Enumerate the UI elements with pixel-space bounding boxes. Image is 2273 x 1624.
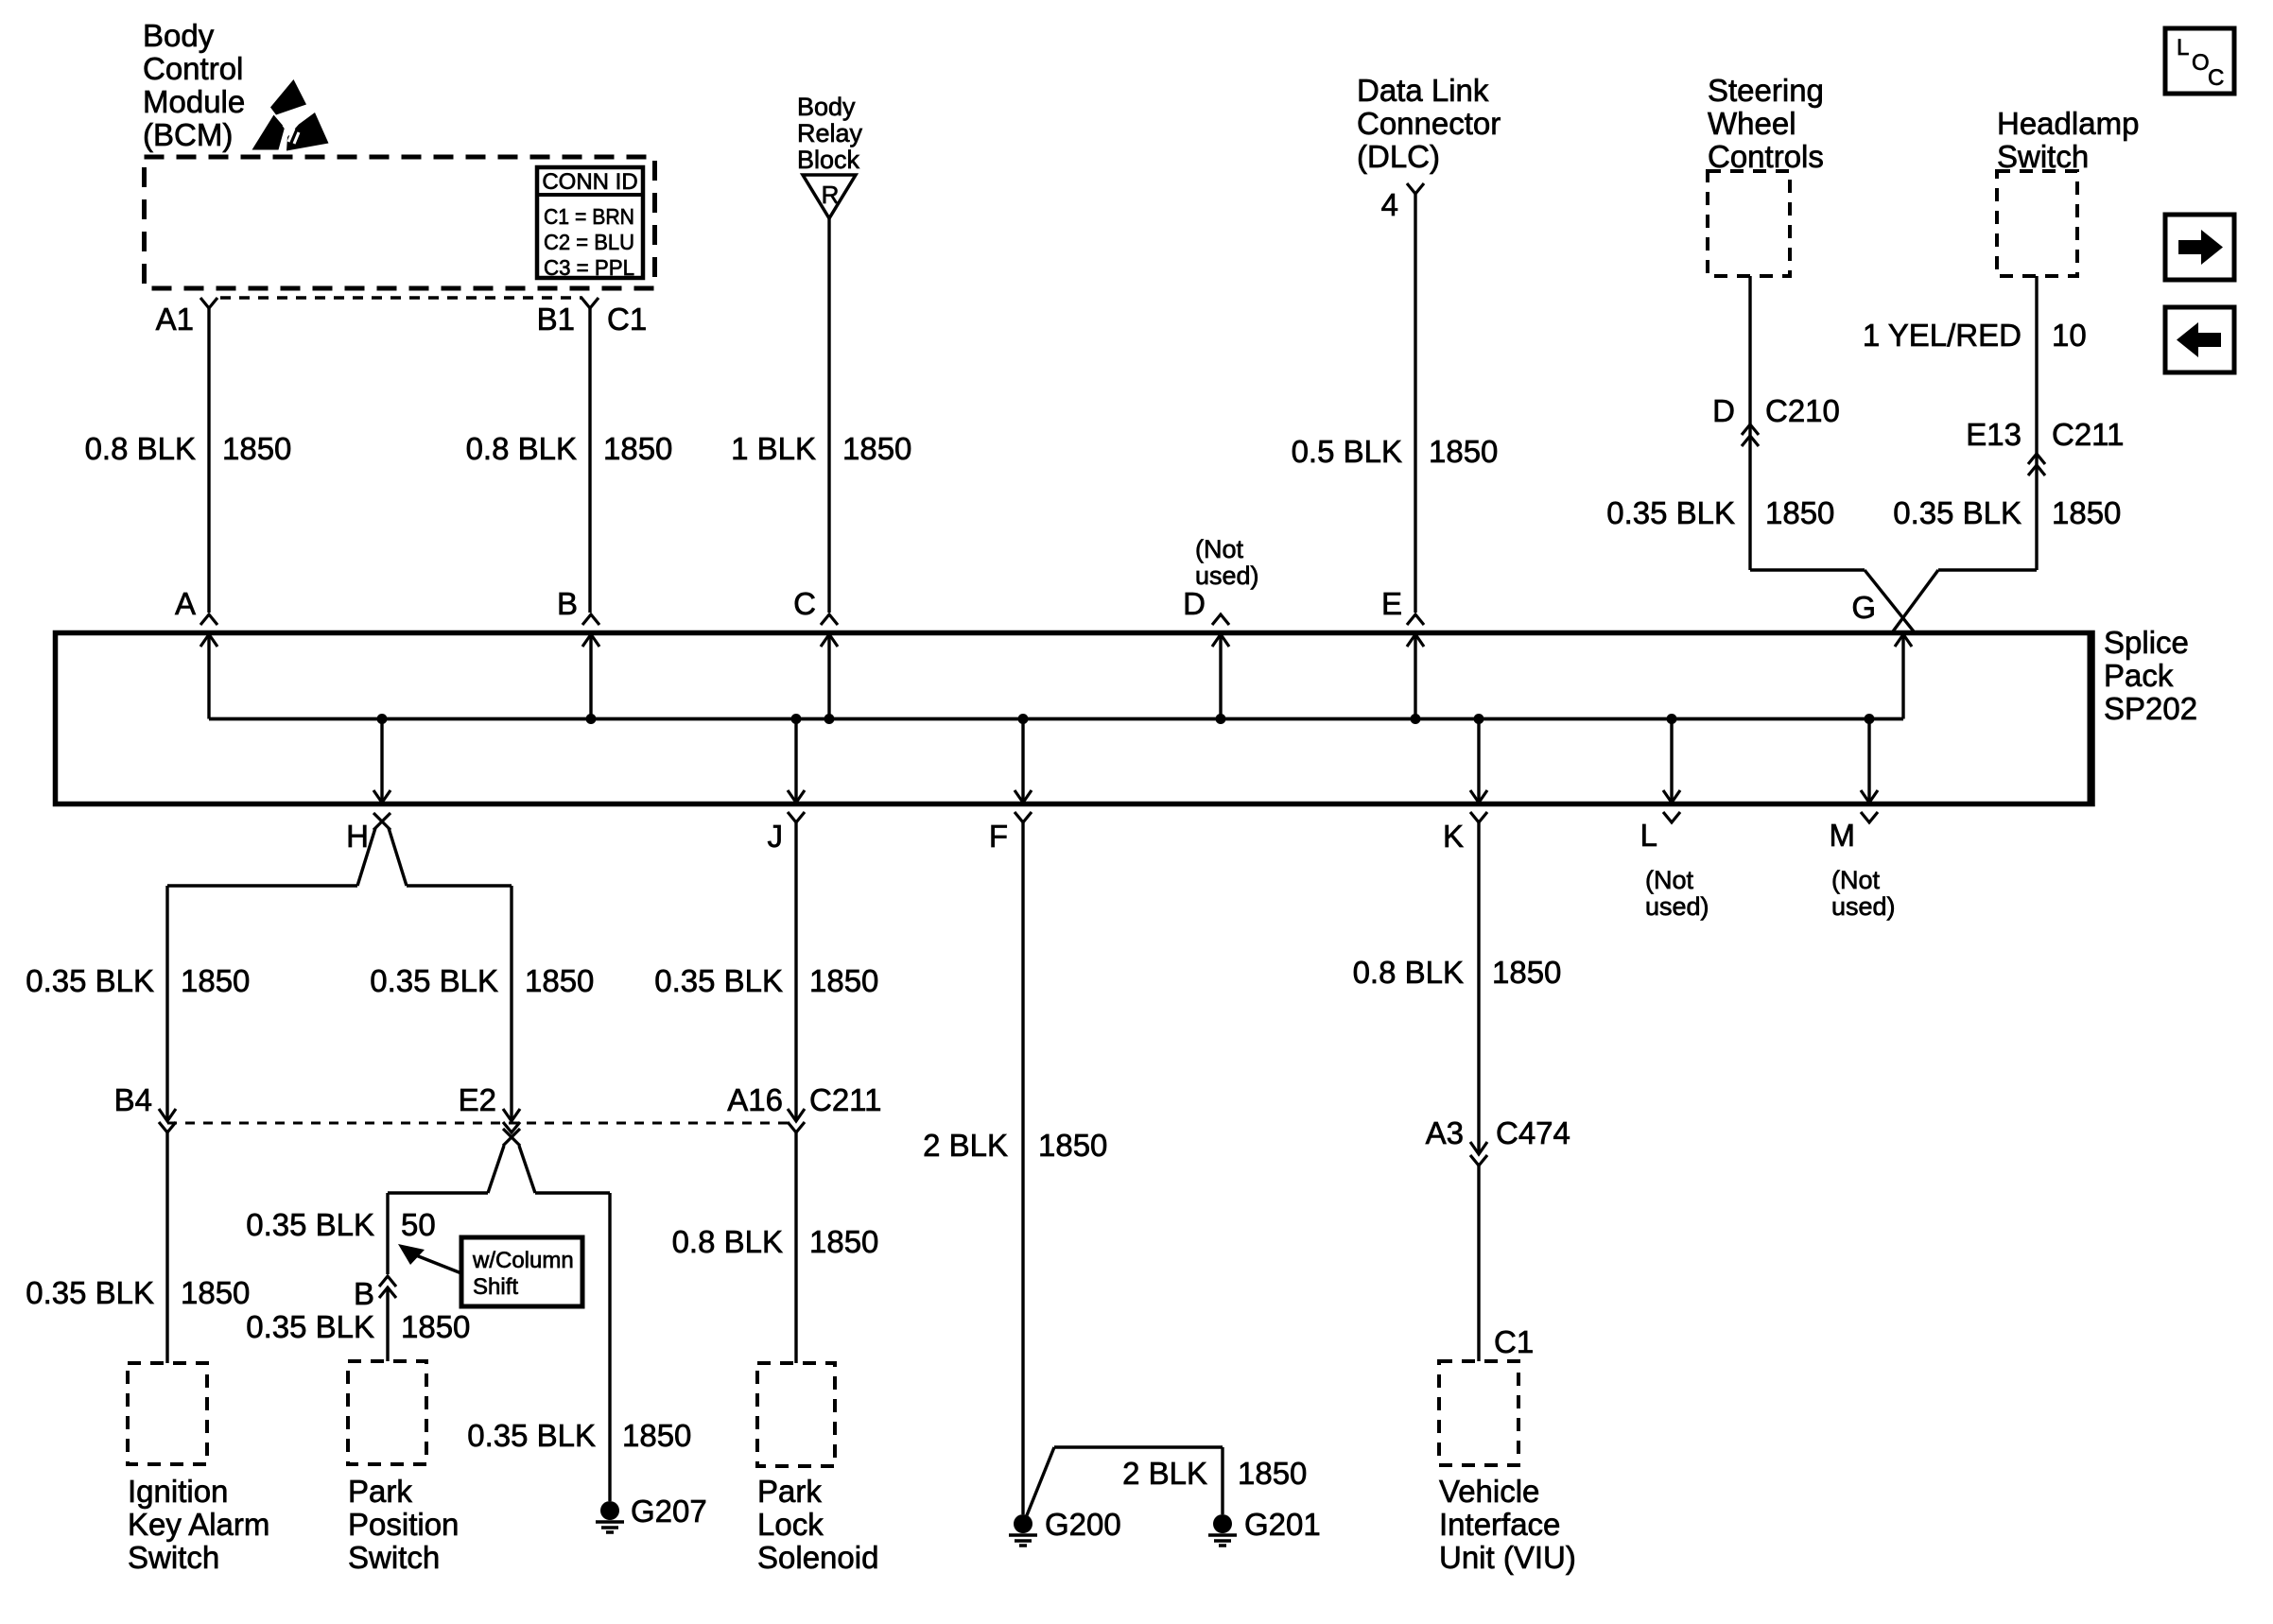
svg-text:L: L — [2177, 35, 2189, 60]
svg-text:Switch: Switch — [128, 1540, 219, 1575]
splice terminal C — [793, 586, 838, 724]
component box Ignition Key Alarm Switch (dashed) — [128, 1363, 207, 1464]
svg-text:A3: A3 — [1426, 1115, 1464, 1150]
wire HLS corner to G crossover — [1893, 570, 2037, 631]
svg-text:0.5 BLK: 0.5 BLK — [1292, 434, 1402, 469]
wire to Vehicle Interface Unit C1 — [1479, 1166, 1534, 1361]
callout arrow to wire — [398, 1244, 461, 1273]
wire E2 fork crossover — [388, 1129, 610, 1193]
component label Park Lock Solenoid — [757, 1474, 878, 1575]
svg-text:10: 10 — [2052, 318, 2087, 353]
svg-text:0.8 BLK: 0.8 BLK — [1353, 955, 1464, 990]
wire G200 to G201 jumper, 2 BLK 1850 — [1027, 1447, 1307, 1515]
connector pin A1 of BCM — [156, 298, 217, 337]
svg-text:2 BLK: 2 BLK — [923, 1128, 1008, 1163]
svg-text:Park: Park — [348, 1474, 412, 1509]
svg-text:Block: Block — [797, 146, 860, 174]
splice terminal J — [768, 714, 806, 854]
ground G200 — [1009, 1507, 1121, 1546]
component box Vehicle Interface Unit (dashed) — [1439, 1361, 1518, 1465]
splice terminal B — [557, 586, 599, 724]
svg-text:0.35 BLK: 0.35 BLK — [467, 1418, 596, 1453]
splice terminal G crossover — [1851, 590, 1912, 719]
page nav arrow left box — [2165, 307, 2234, 372]
svg-text:Splice: Splice — [2104, 625, 2189, 660]
splice terminal F — [989, 714, 1032, 854]
svg-text:C2 = BLU: C2 = BLU — [544, 230, 634, 254]
svg-text:1850: 1850 — [1238, 1456, 1307, 1491]
svg-text:C211: C211 — [2052, 417, 2124, 452]
connector A16 C211 inline — [727, 1082, 881, 1132]
svg-text:Interface: Interface — [1439, 1507, 1560, 1542]
svg-text:1850: 1850 — [1492, 955, 1561, 990]
svg-text:E2: E2 — [459, 1082, 496, 1117]
svg-text:G200: G200 — [1045, 1507, 1121, 1542]
svg-text:A16: A16 — [727, 1082, 783, 1117]
svg-text:used): used) — [1195, 561, 1259, 590]
svg-text:0.35 BLK: 0.35 BLK — [1893, 495, 2021, 530]
svg-text:Module: Module — [143, 84, 245, 119]
CONN ID table — [537, 167, 643, 280]
svg-text:K: K — [1443, 819, 1464, 854]
svg-text:1850: 1850 — [401, 1309, 470, 1344]
svg-text:50: 50 — [401, 1207, 436, 1242]
svg-text:B: B — [557, 586, 578, 621]
splice terminal D (Not used) — [1183, 535, 1258, 724]
svg-text:C211: C211 — [809, 1082, 881, 1117]
wire DLC-4 to splice E, 0.5 BLK 1850 — [1292, 194, 1499, 613]
wire R to splice C, 1 BLK 1850 — [731, 218, 911, 613]
svg-text:1850: 1850 — [622, 1418, 691, 1453]
svg-text:L: L — [1640, 818, 1657, 853]
svg-text:CONN ID: CONN ID — [542, 169, 637, 195]
svg-text:Connector: Connector — [1357, 106, 1501, 141]
connector A3 C474 inline — [1426, 1115, 1570, 1166]
wire E2 right branch to G207, 0.35 BLK 1850 — [467, 1193, 691, 1501]
svg-text:(Not: (Not — [1831, 866, 1881, 894]
svg-text:G207: G207 — [631, 1494, 707, 1529]
svg-text:1 YEL/RED: 1 YEL/RED — [1863, 318, 2021, 353]
wire B4 to Ignition Key Alarm Switch, 0.35 BLK 1850 — [26, 1132, 250, 1363]
splice terminal K — [1443, 714, 1487, 854]
wire H left branch 0.35 BLK 1850 — [26, 886, 250, 1119]
connector D C210 inline — [1712, 393, 1840, 446]
splice pack SP202 box — [56, 625, 2198, 804]
svg-text:1 BLK: 1 BLK — [731, 431, 816, 466]
svg-text:0.35 BLK: 0.35 BLK — [654, 963, 783, 998]
component label Data Link Connector (DLC) — [1357, 73, 1501, 174]
connector E13 C211 inline — [1893, 417, 2124, 530]
svg-text:B4: B4 — [114, 1082, 152, 1117]
svg-text:C: C — [793, 586, 816, 621]
component box Park Lock Solenoid (dashed) — [757, 1363, 835, 1466]
component label Body Relay Block — [797, 93, 863, 174]
svg-text:C474: C474 — [1496, 1115, 1570, 1150]
wire HLS 1 YEL/RED 10 — [1863, 276, 2087, 570]
svg-text:1850: 1850 — [525, 963, 594, 998]
svg-text:Ignition: Ignition — [128, 1474, 228, 1509]
svg-text:O: O — [2192, 50, 2210, 76]
svg-text:Body: Body — [143, 18, 215, 53]
svg-text:(DLC): (DLC) — [1357, 139, 1440, 174]
splice pack internal bus wire — [209, 717, 1903, 721]
svg-text:4: 4 — [1381, 187, 1398, 222]
wire to Park Position Switch upper, 0.35 BLK 50 — [246, 1193, 436, 1274]
ESD sensitive device symbol — [252, 79, 329, 151]
component label Body Control Module (BCM) — [143, 18, 245, 152]
svg-text:Relay: Relay — [797, 119, 863, 147]
svg-text:M: M — [1830, 818, 1856, 853]
svg-text:0.35 BLK: 0.35 BLK — [246, 1207, 374, 1242]
svg-text:1850: 1850 — [222, 431, 291, 466]
wire to Park Lock Solenoid, 0.8 BLK 1850 — [672, 1132, 879, 1363]
svg-text:C3 = PPL: C3 = PPL — [544, 255, 634, 280]
wire to Park Position Switch lower, 0.35 BLK 1850 — [246, 1287, 470, 1361]
svg-text:Park: Park — [757, 1474, 822, 1509]
svg-text:G: G — [1851, 590, 1876, 625]
svg-text:F: F — [989, 819, 1008, 854]
svg-text:D: D — [1712, 393, 1735, 428]
svg-text:Steering: Steering — [1708, 73, 1824, 108]
in-line connector dashed line C202 — [167, 1122, 796, 1125]
component box BCM (dashed) — [145, 157, 655, 288]
wire SWC corner to G crossover — [1750, 570, 1914, 631]
svg-text:A1: A1 — [156, 302, 194, 337]
svg-text:Switch: Switch — [348, 1540, 440, 1575]
svg-text:C1: C1 — [607, 302, 647, 337]
component label Headlamp Switch — [1997, 106, 2139, 174]
svg-text:A: A — [175, 586, 196, 621]
svg-text:1850: 1850 — [2052, 495, 2121, 530]
svg-text:0.8 BLK: 0.8 BLK — [85, 431, 196, 466]
svg-text:C1: C1 — [1494, 1324, 1534, 1359]
svg-text:Control: Control — [143, 51, 243, 86]
svg-text:Switch: Switch — [1997, 139, 2089, 174]
splice terminal E — [1381, 586, 1424, 724]
relay block triangle R — [803, 175, 856, 218]
svg-text:Position: Position — [348, 1507, 459, 1542]
wire SWC to G, upper, 0.35 BLK 1850 — [1606, 276, 1834, 570]
svg-text:used): used) — [1831, 892, 1896, 921]
wire H fork — [167, 828, 512, 886]
wire splice K, 0.8 BLK 1850 — [1353, 822, 1562, 1151]
connector B inline to Park Position Switch — [354, 1276, 396, 1311]
connector pin 4 of DLC — [1381, 183, 1424, 222]
svg-text:0.35 BLK: 0.35 BLK — [370, 963, 498, 998]
svg-text:1850: 1850 — [1429, 434, 1498, 469]
connector E2 inline — [459, 1082, 520, 1132]
splice terminal L (Not used) — [1640, 714, 1709, 921]
svg-text:Data Link: Data Link — [1357, 73, 1489, 108]
component box Headlamp Switch (dashed) — [1997, 171, 2077, 276]
svg-text:2 BLK: 2 BLK — [1122, 1456, 1207, 1491]
svg-text:Controls: Controls — [1708, 139, 1824, 174]
svg-text:Vehicle: Vehicle — [1439, 1474, 1539, 1509]
svg-text:Pack: Pack — [2104, 658, 2174, 693]
svg-text:B: B — [354, 1276, 374, 1311]
connector B4 inline — [114, 1082, 176, 1132]
svg-text:Wheel: Wheel — [1708, 106, 1796, 141]
svg-text:1850: 1850 — [809, 963, 878, 998]
svg-text:G201: G201 — [1244, 1507, 1321, 1542]
svg-text:B1: B1 — [537, 302, 575, 337]
ground G207 — [596, 1494, 707, 1532]
svg-text:1850: 1850 — [809, 1224, 878, 1259]
svg-text:SP202: SP202 — [2104, 691, 2197, 726]
component label Vehicle Interface Unit (VIU) — [1439, 1474, 1576, 1575]
svg-text:0.35 BLK: 0.35 BLK — [1606, 495, 1735, 530]
svg-text:1850: 1850 — [1038, 1128, 1107, 1163]
callout box w/Column Shift — [461, 1237, 582, 1306]
wire H right branch 0.35 BLK 1850 — [370, 886, 594, 1119]
component label Park Position Switch — [348, 1474, 459, 1575]
BCM connector face dashed line — [220, 296, 582, 300]
svg-text:C210: C210 — [1765, 393, 1840, 428]
component label Steering Wheel Controls — [1708, 73, 1824, 174]
svg-text:Body: Body — [797, 93, 856, 121]
svg-text:0.35 BLK: 0.35 BLK — [26, 963, 154, 998]
svg-text:1850: 1850 — [181, 963, 250, 998]
svg-text:1850: 1850 — [1765, 495, 1834, 530]
svg-text:H: H — [346, 819, 369, 854]
svg-text:Shift: Shift — [473, 1274, 518, 1300]
splice terminal A — [175, 586, 217, 719]
svg-text:1850: 1850 — [842, 431, 911, 466]
svg-text:Headlamp: Headlamp — [1997, 106, 2139, 141]
connector pin B1 C1 of BCM — [537, 298, 648, 337]
svg-text:(Not: (Not — [1645, 866, 1694, 894]
svg-text:used): used) — [1645, 892, 1709, 921]
svg-text:C: C — [2208, 65, 2224, 91]
splice terminal M (Not used) — [1830, 714, 1896, 921]
svg-text:Solenoid: Solenoid — [757, 1540, 878, 1575]
wire splice F to G200, 2 BLK 1850 — [923, 822, 1107, 1514]
svg-text:R: R — [822, 181, 840, 209]
page nav arrow right box — [2165, 215, 2234, 280]
svg-text:1850: 1850 — [181, 1275, 250, 1310]
svg-text:(Not: (Not — [1195, 535, 1244, 563]
svg-text:(BCM): (BCM) — [143, 117, 233, 152]
wire splice J, 0.35 BLK 1850 — [654, 822, 878, 1119]
wire B1 to splice B, 0.8 BLK 1850 — [466, 308, 673, 613]
svg-text:J: J — [768, 819, 784, 854]
svg-text:0.8 BLK: 0.8 BLK — [672, 1224, 783, 1259]
svg-text:Unit (VIU): Unit (VIU) — [1439, 1540, 1576, 1575]
svg-text:D: D — [1183, 586, 1206, 621]
LOC legend box — [2165, 28, 2234, 94]
svg-text:E: E — [1381, 586, 1402, 621]
svg-text:0.35 BLK: 0.35 BLK — [26, 1275, 154, 1310]
component label Ignition Key Alarm Switch — [128, 1474, 269, 1575]
svg-text:0.8 BLK: 0.8 BLK — [466, 431, 577, 466]
ground G201 — [1208, 1507, 1321, 1546]
svg-text:E13: E13 — [1966, 417, 2021, 452]
svg-text:0.35 BLK: 0.35 BLK — [246, 1309, 374, 1344]
component box Park Position Switch (dashed) — [348, 1361, 426, 1464]
svg-text:w/Column: w/Column — [472, 1248, 574, 1273]
svg-text:Lock: Lock — [757, 1507, 824, 1542]
wire A1 to splice A, 0.8 BLK 1850 — [85, 308, 292, 613]
svg-text:1850: 1850 — [603, 431, 672, 466]
splice terminal H — [346, 714, 390, 854]
component box Steering Wheel Controls (dashed) — [1708, 171, 1790, 276]
svg-text:Key Alarm: Key Alarm — [128, 1507, 269, 1542]
svg-text:C1 = BRN: C1 = BRN — [544, 204, 634, 229]
